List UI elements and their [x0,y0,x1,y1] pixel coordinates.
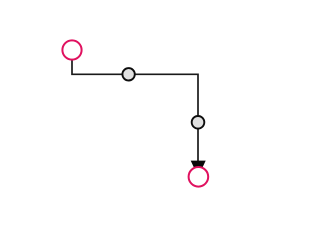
node A (source circle) [62,40,81,59]
junction J2 [192,116,205,129]
junction J1 [122,68,134,80]
node B (target circle) [189,167,209,187]
arrowhead [191,161,206,177]
wire [72,60,198,162]
